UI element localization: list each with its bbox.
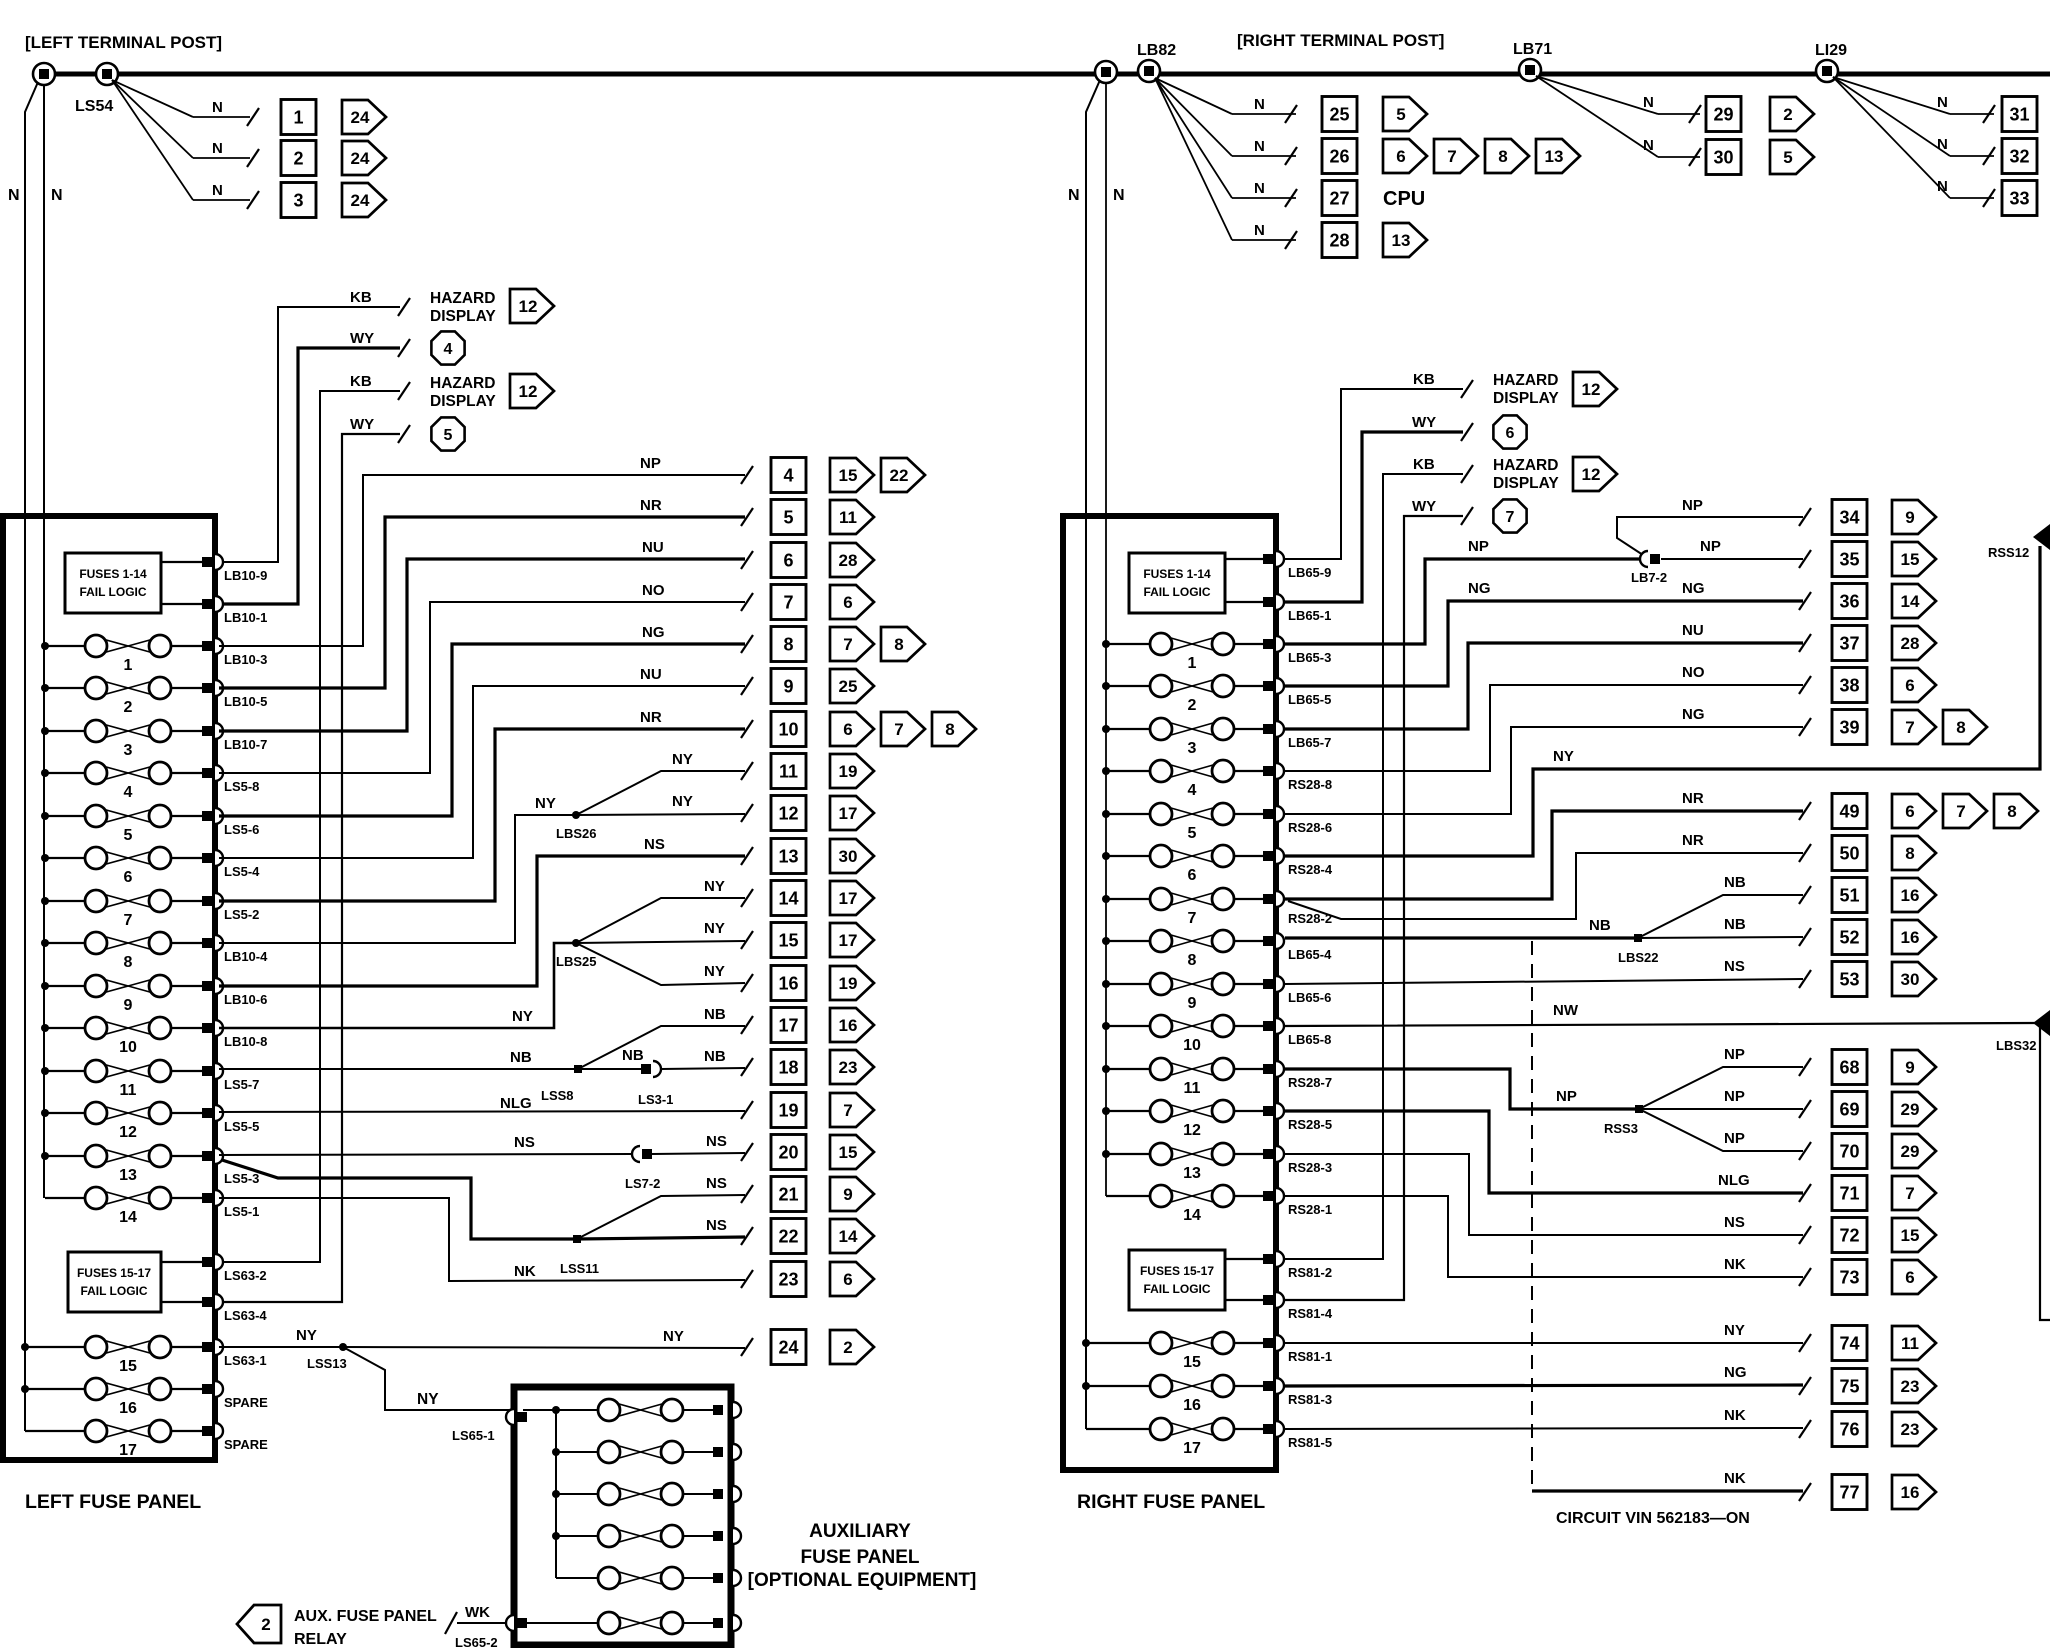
text LEFT FUSE PANEL [25, 1491, 201, 1513]
label NLG [1718, 1172, 1750, 1189]
slash row 8 [741, 635, 753, 653]
svg-text:36: 36 [1839, 592, 1859, 612]
wire NY RS81-1 to box 74 [1285, 1342, 1803, 1344]
junction bus [41, 1109, 49, 1117]
pentagon 15 [830, 458, 874, 492]
svg-text:NR: NR [640, 709, 662, 726]
slash row 7 [741, 593, 753, 611]
svg-text:6: 6 [1905, 802, 1914, 821]
right fuse panel outline [1063, 516, 1276, 1470]
svg-text:4: 4 [783, 466, 793, 486]
wire top bus [44, 72, 2050, 77]
label NG [1468, 580, 1491, 597]
fuse L17 [25, 1420, 202, 1459]
wire NG LB65-5 to box 36 [1285, 601, 1803, 686]
svg-text:LS5-5: LS5-5 [224, 1119, 259, 1134]
svg-text:NG: NG [1468, 580, 1491, 597]
junction RSS3 [1604, 1105, 1643, 1136]
wire NY LSS13 to aux panel [343, 1347, 510, 1410]
pin RS81-4 [1263, 1292, 1333, 1321]
label NB [622, 1047, 644, 1064]
svg-text:16: 16 [1901, 886, 1920, 905]
wire NP tap to box 34 [1617, 517, 1803, 555]
junction bus [21, 1385, 29, 1393]
label NK [1724, 1256, 1746, 1273]
svg-text:24: 24 [778, 1338, 798, 1358]
svg-text:17: 17 [839, 931, 858, 950]
label NR [640, 497, 662, 514]
svg-text:NS: NS [706, 1133, 727, 1150]
pin LS5-6 [202, 808, 259, 837]
svg-text:N: N [1937, 136, 1948, 153]
label NP [1468, 538, 1489, 555]
pin LB65-1 [1263, 594, 1331, 623]
wire N drop left outer [25, 82, 38, 1431]
pentagon 14 [1892, 584, 1936, 618]
pin RS28-2 [1263, 891, 1332, 926]
svg-text:17: 17 [839, 804, 858, 823]
junction bus [1102, 810, 1110, 818]
svg-text:33: 33 [2009, 189, 2029, 209]
box 5 [771, 500, 806, 535]
svg-text:70: 70 [1839, 1142, 1859, 1162]
label NG [642, 624, 665, 641]
connector LS3-1 [638, 1061, 673, 1107]
svg-text:SPARE: SPARE [224, 1395, 268, 1410]
slash row 35 [1799, 550, 1811, 568]
pin LB10-6 [202, 978, 267, 1007]
box 17 [771, 1008, 806, 1043]
pin RS81-3 [1263, 1378, 1332, 1407]
fuse R8 [1106, 930, 1263, 969]
svg-text:6: 6 [1905, 1268, 1914, 1287]
label HAZARD DISPLAY [430, 290, 496, 325]
wire NB LS3-1 to box 18 [661, 1068, 745, 1069]
svg-text:N: N [1937, 178, 1948, 195]
box 20 [771, 1135, 806, 1170]
svg-text:25: 25 [839, 677, 858, 696]
svg-text:N: N [212, 182, 223, 199]
svg-text:WY: WY [350, 416, 374, 433]
slash row 69 [1799, 1100, 1811, 1118]
pentagon 28 [1892, 626, 1936, 660]
box 77 [1832, 1475, 1867, 1510]
slash row 6 [741, 551, 753, 569]
svg-text:NS: NS [706, 1175, 727, 1192]
box 23 [771, 1262, 806, 1297]
svg-text:NG: NG [642, 624, 665, 641]
svg-text:LB10-3: LB10-3 [224, 652, 267, 667]
pentagon 29 [1892, 1134, 1936, 1168]
pentagon 30 [1892, 962, 1936, 996]
svg-text:7: 7 [1188, 910, 1197, 927]
junction bus [1102, 852, 1110, 860]
svg-text:4: 4 [444, 341, 453, 358]
pentagon 7 [881, 712, 925, 746]
svg-text:NK: NK [1724, 1470, 1746, 1487]
svg-text:9: 9 [124, 997, 133, 1014]
label N [1937, 178, 1948, 195]
pentagon 23 [1892, 1369, 1936, 1403]
svg-text:FAIL LOGIC: FAIL LOGIC [1143, 1282, 1210, 1296]
svg-text:4: 4 [1188, 782, 1197, 799]
svg-text:NY: NY [512, 1008, 533, 1025]
wire NU LB10-7 to box 6 [219, 559, 745, 731]
svg-text:NP: NP [1556, 1088, 1577, 1105]
svg-text:NU: NU [640, 666, 662, 683]
svg-text:RELAY: RELAY [294, 1631, 347, 1648]
svg-text:26: 26 [1329, 147, 1349, 167]
svg-text:FUSES 1-14: FUSES 1-14 [79, 567, 147, 581]
label KB [1413, 456, 1435, 473]
box 68 [1832, 1050, 1867, 1085]
box 2 [281, 141, 316, 176]
svg-text:LS63-2: LS63-2 [224, 1268, 267, 1283]
svg-text:NP: NP [1700, 538, 1721, 555]
svg-text:13: 13 [1183, 1165, 1201, 1182]
svg-text:35: 35 [1839, 550, 1859, 570]
svg-text:72: 72 [1839, 1226, 1859, 1246]
slash row 23 [741, 1270, 753, 1288]
pentagon 8 [1943, 710, 1987, 744]
label NY [512, 1008, 533, 1025]
svg-text:AUXILIARY: AUXILIARY [809, 1521, 911, 1542]
svg-text:52: 52 [1839, 928, 1859, 948]
svg-text:22: 22 [778, 1227, 798, 1247]
svg-text:17: 17 [839, 889, 858, 908]
label NY [417, 1391, 439, 1408]
svg-text:13: 13 [1545, 147, 1564, 166]
svg-text:NU: NU [1682, 622, 1704, 639]
wire NS LSS11 to box 22 [577, 1237, 745, 1239]
svg-text:LBS25: LBS25 [556, 954, 596, 969]
pentagon 12 [1573, 457, 1617, 491]
wire NG LS5-6 to box 8 [219, 644, 745, 816]
fuse R12 [1106, 1100, 1263, 1139]
slash row 20 [741, 1143, 753, 1161]
box 8 [771, 627, 806, 662]
wire NP RSS3 to box 69 [1639, 1108, 1803, 1110]
svg-text:RS28-8: RS28-8 [1288, 777, 1332, 792]
svg-text:7: 7 [843, 1101, 852, 1120]
box 12 [771, 796, 806, 831]
junction bus [41, 769, 49, 777]
svg-text:LB10-6: LB10-6 [224, 992, 267, 1007]
svg-text:LB10-7: LB10-7 [224, 737, 267, 752]
svg-text:DISPLAY: DISPLAY [1493, 475, 1559, 492]
box 69 [1832, 1092, 1867, 1127]
svg-text:NY: NY [417, 1391, 439, 1408]
pentagon 7 [830, 627, 874, 661]
junction bus [41, 897, 49, 905]
svg-text:11: 11 [1184, 1080, 1201, 1097]
slash row 39 [1799, 718, 1811, 736]
pentagon 2 aux fuse panel relay [237, 1605, 281, 1643]
pin LB65-5 [1263, 678, 1331, 707]
slash row 70 [1799, 1142, 1811, 1160]
svg-text:5: 5 [1783, 148, 1792, 167]
pentagon 9 [1892, 1050, 1936, 1084]
svg-text:NS: NS [1724, 958, 1745, 975]
label N [1113, 187, 1125, 204]
text header RIGHT TERMINAL POST [1237, 31, 1444, 50]
svg-text:NY: NY [704, 963, 725, 980]
svg-text:6: 6 [843, 593, 852, 612]
fuse L6 [45, 847, 202, 886]
box 22 [771, 1219, 806, 1254]
box 74 [1832, 1326, 1867, 1361]
svg-text:NR: NR [1682, 832, 1704, 849]
label NY [672, 793, 693, 810]
svg-text:HAZARD: HAZARD [430, 375, 495, 392]
box 27 [1322, 181, 1357, 216]
octagon 7 [1493, 499, 1526, 532]
fuse L8 [45, 932, 202, 971]
box 18 [771, 1050, 806, 1085]
label NY [704, 963, 725, 980]
wire NY RS28-4 to RSS12 [1285, 546, 2040, 856]
svg-text:34: 34 [1839, 508, 1859, 528]
svg-text:RSS3: RSS3 [1604, 1121, 1638, 1136]
svg-text:39: 39 [1839, 718, 1859, 738]
label N [212, 99, 223, 116]
svg-text:LS63-1: LS63-1 [224, 1353, 267, 1368]
svg-text:38: 38 [1839, 676, 1859, 696]
pin LB10-1 [202, 596, 267, 625]
svg-text:28: 28 [1329, 231, 1349, 251]
svg-text:7: 7 [1956, 802, 1965, 821]
box 3 [281, 183, 316, 218]
svg-text:8: 8 [894, 635, 903, 654]
wire fail logic to LS63-4 [161, 1301, 202, 1303]
svg-text:NY: NY [704, 920, 725, 937]
slash row 51 [1799, 886, 1811, 904]
svg-text:WY: WY [1412, 414, 1436, 431]
svg-text:N: N [8, 187, 20, 204]
pentagon 16 [830, 1008, 874, 1042]
junction bus [1102, 895, 1110, 903]
wire N drop right inner [1105, 83, 1107, 1196]
svg-text:LSS13: LSS13 [307, 1356, 347, 1371]
wire KB from LB10-9 [211, 298, 410, 562]
svg-text:14: 14 [1183, 1207, 1201, 1224]
junction bus [41, 854, 49, 862]
box 13 [771, 839, 806, 874]
label NS [514, 1134, 535, 1151]
junction LSS11 [560, 1235, 599, 1276]
pentagon 9 [830, 1177, 874, 1211]
wire N to box 33 [1833, 77, 1995, 207]
svg-text:LBS22: LBS22 [1618, 950, 1658, 965]
svg-text:CPU: CPU [1383, 188, 1425, 210]
wire NY LS63-1 to LSS13 [219, 1346, 343, 1348]
auxiliary fuse panel outline [514, 1387, 731, 1645]
terminal post LB71 [1513, 41, 1552, 81]
fuse L7 [45, 890, 202, 929]
svg-text:NLG: NLG [1718, 1172, 1750, 1189]
svg-text:FAIL LOGIC: FAIL LOGIC [1143, 585, 1210, 599]
label NU [642, 539, 664, 556]
svg-text:8: 8 [1956, 718, 1965, 737]
svg-text:NO: NO [1682, 664, 1705, 681]
svg-text:HAZARD: HAZARD [1493, 372, 1558, 389]
pentagon 19 [830, 966, 874, 1000]
svg-text:LSS11: LSS11 [560, 1261, 599, 1276]
label NY [296, 1327, 317, 1344]
svg-text:NY: NY [672, 751, 693, 768]
wire NB LSS8 to box 17 [578, 1026, 745, 1069]
label NS [1724, 1214, 1745, 1231]
fuse L4 [45, 762, 202, 801]
svg-text:[OPTIONAL EQUIPMENT]: [OPTIONAL EQUIPMENT] [748, 1570, 977, 1591]
svg-text:2: 2 [293, 149, 303, 169]
wire NR RS28-2 to box 49 [1285, 811, 1803, 899]
wire left panel bus fuses 1-14 [43, 85, 45, 1198]
junction LSS13 [307, 1343, 347, 1371]
svg-text:13: 13 [778, 847, 798, 867]
label NO [642, 582, 665, 599]
svg-text:RS81-5: RS81-5 [1288, 1435, 1332, 1450]
box 76 [1832, 1412, 1867, 1447]
svg-text:NP: NP [1724, 1088, 1745, 1105]
label N [1643, 137, 1654, 154]
label NR [640, 709, 662, 726]
svg-text:6: 6 [1188, 867, 1197, 884]
label NY [672, 751, 693, 768]
svg-text:69: 69 [1839, 1100, 1859, 1120]
wire WY from LS63-4 [211, 425, 410, 1302]
svg-text:LS5-6: LS5-6 [224, 822, 259, 837]
slash row 72 [1799, 1226, 1811, 1244]
svg-text:RS28-1: RS28-1 [1288, 1202, 1332, 1217]
svg-text:13: 13 [1392, 231, 1411, 250]
wire NLG LS5-5 to box 19 [219, 1111, 745, 1112]
label NY [1553, 748, 1574, 765]
wire fail logic to RS81-2 [1225, 1258, 1263, 1260]
svg-text:6: 6 [1396, 147, 1405, 166]
label N [1254, 222, 1265, 239]
fuse R4 [1106, 760, 1263, 799]
svg-text:NB: NB [510, 1049, 532, 1066]
box 52 [1832, 920, 1867, 955]
pin LS5-3 [202, 1148, 259, 1186]
svg-text:15: 15 [119, 1358, 137, 1375]
label N [212, 182, 223, 199]
svg-text:N: N [1254, 96, 1265, 113]
wire dashed circuit VIN [1531, 941, 1533, 1491]
svg-text:RS81-1: RS81-1 [1288, 1349, 1332, 1364]
fuse R2 [1106, 675, 1263, 714]
junction bus [1102, 1150, 1110, 1158]
junction bus [1082, 1339, 1090, 1347]
svg-text:RS28-6: RS28-6 [1288, 820, 1332, 835]
wire N to box 26 [1155, 78, 1297, 165]
pentagon 24 [342, 183, 386, 217]
svg-text:WY: WY [350, 330, 374, 347]
label NU [640, 666, 662, 683]
wire NY LSS13 to box 24 [343, 1347, 745, 1348]
svg-text:8: 8 [124, 954, 133, 971]
fuse R6 [1106, 845, 1263, 884]
label NS [706, 1133, 727, 1150]
svg-text:16: 16 [1183, 1397, 1201, 1414]
svg-text:7: 7 [1506, 509, 1515, 526]
svg-text:22: 22 [890, 466, 909, 485]
pentagon 23 [830, 1050, 874, 1084]
wire N to box 27 [1155, 78, 1297, 207]
label NP [1724, 1130, 1745, 1147]
box 11 [771, 754, 806, 789]
pin LS5-1 [202, 1190, 259, 1219]
wire NS LB10-6 to box 13 [219, 856, 745, 986]
fuse A4 [556, 1525, 713, 1547]
svg-text:KB: KB [1413, 371, 1435, 388]
wire NP LB65-3 to LB7-2 [1285, 559, 1641, 644]
box 30 [1706, 140, 1741, 175]
wire NO LS5-8 to box 7 [219, 602, 745, 773]
slash row 75 [1799, 1377, 1811, 1395]
box 26 [1322, 139, 1357, 174]
pentagon 17 [830, 881, 874, 915]
svg-text:5: 5 [1396, 105, 1405, 124]
svg-text:LB65-4: LB65-4 [1288, 947, 1332, 962]
pin aux right [713, 1528, 741, 1544]
svg-text:LSS8: LSS8 [541, 1088, 574, 1103]
label HAZARD DISPLAY [1493, 372, 1559, 407]
wire NY LBS26 to box 11 [576, 771, 745, 815]
box 53 [1832, 962, 1867, 997]
text AUXILIARY [809, 1521, 911, 1542]
pin LB10-4 [202, 935, 268, 964]
text RIGHT FUSE PANEL [1077, 1491, 1265, 1513]
svg-text:DISPLAY: DISPLAY [430, 393, 496, 410]
svg-text:NY: NY [1553, 748, 1574, 765]
label NP [1724, 1046, 1745, 1063]
svg-text:FUSES 15-17: FUSES 15-17 [77, 1266, 151, 1280]
pin LB65-3 [1263, 636, 1331, 665]
svg-text:NS: NS [706, 1217, 727, 1234]
pin aux right [713, 1570, 741, 1586]
svg-text:12: 12 [778, 804, 798, 824]
svg-text:14: 14 [119, 1209, 137, 1226]
box 6 [771, 543, 806, 578]
svg-text:[RIGHT TERMINAL POST]: [RIGHT TERMINAL POST] [1237, 31, 1444, 50]
pin LS5-4 [202, 850, 260, 879]
svg-text:FUSES 15-17: FUSES 15-17 [1140, 1264, 1214, 1278]
svg-text:8: 8 [1905, 844, 1914, 863]
svg-text:NS: NS [644, 836, 665, 853]
svg-text:8: 8 [783, 635, 793, 655]
svg-text:1: 1 [293, 108, 303, 128]
slash row 36 [1799, 592, 1811, 610]
svg-text:LS3-1: LS3-1 [638, 1092, 673, 1107]
label NR [1682, 832, 1704, 849]
svg-text:76: 76 [1839, 1420, 1859, 1440]
label NS [1724, 958, 1745, 975]
svg-text:6: 6 [843, 720, 852, 739]
box 73 [1832, 1260, 1867, 1295]
wire fail logic to LS63-2 [161, 1261, 202, 1263]
svg-text:8: 8 [2007, 802, 2016, 821]
slash row 22 [741, 1227, 753, 1245]
svg-text:8: 8 [945, 720, 954, 739]
box 36 [1832, 584, 1867, 619]
svg-text:NS: NS [514, 1134, 535, 1151]
label N [1254, 138, 1265, 155]
pin SPARE [202, 1381, 268, 1410]
slash row 13 [741, 847, 753, 865]
svg-text:NG: NG [1682, 580, 1705, 597]
